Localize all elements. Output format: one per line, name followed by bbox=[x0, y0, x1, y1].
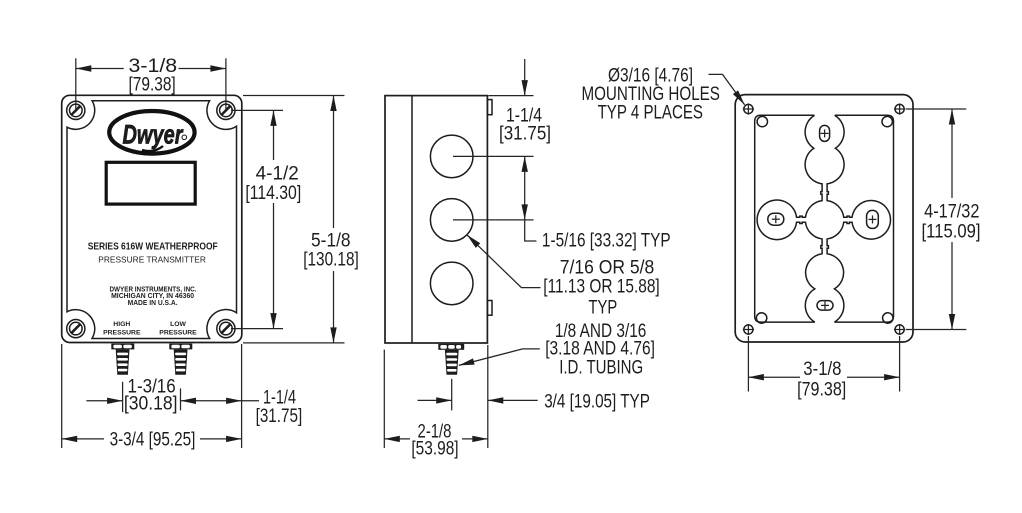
svg-text:[115.09]: [115.09] bbox=[922, 220, 981, 242]
high pressure barb fitting bbox=[111, 344, 134, 375]
enclosure case outline bbox=[62, 95, 242, 342]
svg-text:[114.30]: [114.30] bbox=[245, 182, 301, 204]
mounting hole bottom-right bbox=[894, 324, 905, 335]
dim 4-1/2: dimension line bbox=[273, 110, 275, 160]
dim 1-3/16: arrows outside bbox=[86, 400, 122, 402]
top latch tab bbox=[487, 100, 492, 115]
knockout center extension lines bbox=[453, 155, 534, 157]
screw bottom-left bbox=[67, 320, 85, 338]
svg-text:[79.38]: [79.38] bbox=[797, 378, 846, 400]
corner post bottom-right bbox=[883, 313, 893, 323]
svg-text:[30.18]: [30.18] bbox=[124, 392, 178, 414]
svg-text:PRESSURE TRANSMITTER: PRESSURE TRANSMITTER bbox=[98, 254, 206, 264]
svg-text:PRESSURE: PRESSURE bbox=[159, 329, 197, 336]
low pressure barb fitting bbox=[169, 344, 192, 375]
svg-text:[53.98]: [53.98] bbox=[411, 438, 458, 460]
screw slot top bbox=[820, 125, 830, 141]
side case outline bbox=[385, 96, 487, 343]
screw top-right bbox=[217, 101, 235, 119]
knockout circle 3 bbox=[430, 262, 473, 305]
dim 1-3/16: extension lines bbox=[122, 382, 124, 412]
svg-text:[79.38]: [79.38] bbox=[128, 73, 175, 95]
mounting hole top-left bbox=[743, 103, 754, 114]
svg-text:[130.18]: [130.18] bbox=[303, 249, 359, 271]
svg-text:[31.75]: [31.75] bbox=[256, 405, 303, 427]
screw slot right bbox=[867, 210, 879, 228]
faceplate panel with screw scallops bbox=[67, 101, 237, 339]
mounting hole top-right bbox=[894, 103, 905, 114]
dim 2-1/8: dimension line bbox=[384, 438, 410, 440]
corner post top-right bbox=[882, 116, 892, 126]
svg-text:I.D. TUBING: I.D. TUBING bbox=[559, 357, 643, 379]
svg-text:[11.13 OR 15.88]: [11.13 OR 15.88] bbox=[543, 276, 659, 298]
dim 1-1/4 top: arrow above case bbox=[524, 59, 526, 96]
Dwyer logo oval bbox=[109, 111, 194, 154]
svg-text:LOW: LOW bbox=[170, 321, 186, 328]
dim 3-3/4: dimension line bbox=[62, 438, 104, 440]
svg-text:SERIES 616W WEATHERPROOF: SERIES 616W WEATHERPROOF bbox=[88, 241, 218, 252]
note mounting holes leader bbox=[709, 74, 745, 104]
dim 4-1/2: extension lines from screws bbox=[231, 109, 283, 111]
note I.D. TUBING leader bbox=[459, 349, 540, 366]
dim 1-1/4 right: dimension line with two arrows bbox=[181, 400, 242, 402]
screw slot bottom bbox=[817, 301, 833, 311]
bottom latch tab bbox=[487, 301, 492, 316]
molded plate left half outline bbox=[755, 115, 815, 322]
corner post top-left bbox=[757, 116, 767, 126]
screw slot left bbox=[768, 213, 784, 225]
svg-text:TYP: TYP bbox=[589, 296, 618, 318]
dim 4-17/32: extension lines bbox=[906, 108, 967, 110]
svg-text:TYP 4 PLACES: TYP 4 PLACES bbox=[598, 102, 703, 124]
back cover outline bbox=[735, 95, 913, 342]
dim 3/4 TYP: arrows bbox=[418, 399, 452, 401]
svg-text:3/4 [19.05] TYP: 3/4 [19.05] TYP bbox=[544, 390, 650, 412]
svg-text:MADE IN U.S.A.: MADE IN U.S.A. bbox=[128, 298, 178, 307]
svg-text:PRESSURE: PRESSURE bbox=[103, 329, 141, 336]
screw top-left bbox=[67, 101, 85, 119]
svg-text:3-3/4 [95.25]: 3-3/4 [95.25] bbox=[110, 428, 196, 450]
dim 2-1/8: extension lines bbox=[383, 350, 385, 448]
cover parting line bbox=[411, 96, 413, 343]
svg-text:3-1/8: 3-1/8 bbox=[803, 358, 841, 380]
molded channel cutout right contour bbox=[827, 115, 890, 322]
molded channel cutout left contour bbox=[757, 115, 822, 322]
svg-text:1-5/16 [33.32] TYP: 1-5/16 [33.32] TYP bbox=[542, 229, 671, 251]
knockout circle 2 bbox=[430, 199, 473, 242]
dim 3-1/8 back: extension lines bbox=[747, 336, 749, 392]
corner post bottom-left bbox=[756, 313, 766, 323]
dim 5-1/8: dimension line bbox=[333, 96, 335, 229]
dim 1-5/16: dimension line between centers bbox=[524, 156, 526, 220]
dim 3-3/4: extension lines bbox=[61, 344, 63, 448]
dim 4-17/32: dimension line bbox=[951, 109, 953, 198]
svg-text:HIGH: HIGH bbox=[113, 321, 130, 328]
fitting centerline bbox=[451, 379, 453, 411]
svg-text:Dwyer: Dwyer bbox=[123, 120, 184, 150]
dim 5-1/8: extension lines from case edges bbox=[243, 95, 345, 97]
dim 1-5/16: elbow leader and text bbox=[525, 220, 537, 241]
side barb fitting bbox=[438, 344, 464, 375]
case top edge extension bbox=[489, 95, 534, 97]
mounting hole bottom-left bbox=[743, 324, 754, 335]
svg-text:[31.75]: [31.75] bbox=[499, 123, 551, 145]
dim 3-1/8 top: dimension line bbox=[76, 68, 124, 70]
note 7/16 OR 5/8 leader bbox=[467, 235, 541, 288]
display window bbox=[106, 162, 195, 204]
molded plate right half outline bbox=[834, 115, 893, 322]
dim 3-1/8 back: dimension line bbox=[748, 376, 800, 378]
dim 3-1/8 top: extension lines bbox=[75, 58, 77, 109]
knockout circle 1 bbox=[430, 135, 473, 178]
screw bottom-right bbox=[217, 320, 235, 338]
